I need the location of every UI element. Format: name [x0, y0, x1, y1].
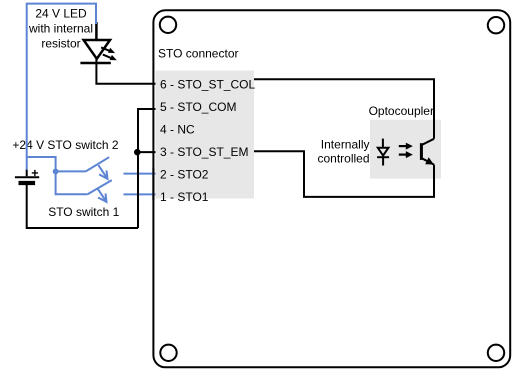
svg-text:controlled: controlled — [317, 151, 369, 165]
svg-text:24 V LED: 24 V LED — [35, 6, 87, 20]
optocoupler internal LED — [377, 139, 389, 166]
wire: battery negative to STO_COM vertical — [27, 185, 138, 228]
wire: pin 6 to optocoupler collector — [254, 79, 434, 139]
node: blue switch junction — [53, 169, 59, 175]
phototransistor Q1 base bar — [420, 143, 423, 160]
optocoupler light arrow 2 — [399, 151, 413, 158]
switch S1 pivot wire — [56, 171, 88, 194]
device body outline — [153, 10, 510, 367]
svg-text:2 - STO2: 2 - STO2 — [160, 168, 209, 182]
wire: pin 3 to optocoupler emitter — [254, 151, 434, 197]
LED D1 emission arrow 1 — [101, 47, 115, 53]
switch S2 actuation arrow — [98, 165, 107, 179]
wire: LED cathode to pin 6 — [96, 58, 155, 84]
optocoupler light arrow 1 — [399, 143, 413, 150]
svg-text:6 - STO_ST_COL: 6 - STO_ST_COL — [160, 78, 255, 92]
svg-text:3 - STO_ST_EM: 3 - STO_ST_EM — [160, 145, 248, 159]
blue wire: battery positive to switch junction — [27, 157, 56, 171]
switch S1 actuation arrow — [97, 188, 106, 202]
battery BT1 negative plate — [19, 181, 36, 185]
svg-text:Internally: Internally — [321, 138, 370, 152]
svg-text:resistor: resistor — [41, 37, 80, 51]
LED D1 triangle — [84, 40, 110, 59]
svg-text:with internal: with internal — [28, 22, 93, 36]
svg-text:STO switch 1: STO switch 1 — [48, 205, 119, 219]
svg-text:Optocoupler: Optocoupler — [369, 104, 434, 118]
node: junction pin3/pin5 — [134, 149, 141, 156]
svg-text:STO connector: STO connector — [158, 47, 238, 61]
wire: common vertical to pin 5 — [138, 109, 156, 228]
battery BT1 positive plate — [15, 176, 39, 178]
mounting hole bottom-left — [160, 345, 176, 361]
wire: switch S1 contact to pin 1 — [124, 193, 156, 195]
LED D1 cathode bar — [80, 62, 110, 65]
svg-text:4 - NC: 4 - NC — [160, 123, 195, 137]
phototransistor Q1 collector — [422, 139, 434, 145]
wire: switch S2 contact to pin 2 — [124, 173, 156, 175]
wire: junction to pin 3 — [137, 151, 156, 153]
blue wire: 24V hook to LED anode — [27, 4, 96, 170]
svg-text:5 - STO_COM: 5 - STO_COM — [160, 100, 236, 114]
svg-text:1 - STO1: 1 - STO1 — [160, 190, 209, 204]
optocoupler U1 body — [370, 120, 441, 179]
switch S1 lever — [88, 180, 112, 194]
phototransistor Q1 emitter with arrow — [422, 157, 434, 164]
mounting hole top-right — [488, 17, 504, 33]
switch S2 pivot wire — [56, 170, 86, 172]
battery BT1 positive lead — [26, 170, 28, 177]
device border segment over blue wires — [152, 168, 154, 200]
label: 24 V LED with internal resistor — [28, 6, 93, 50]
STO connector J1 body — [156, 71, 255, 199]
mounting hole bottom-right — [488, 345, 504, 361]
mounting hole top-left — [160, 17, 176, 33]
battery BT1 plus sign — [32, 170, 38, 176]
LED D1 emission arrow 2 — [103, 55, 117, 61]
switch S2 lever — [86, 157, 109, 171]
LED D1 anode lead — [95, 22, 98, 40]
label: Internally controlled — [317, 138, 369, 166]
svg-text:+24 V STO switch 2: +24 V STO switch 2 — [12, 138, 118, 152]
